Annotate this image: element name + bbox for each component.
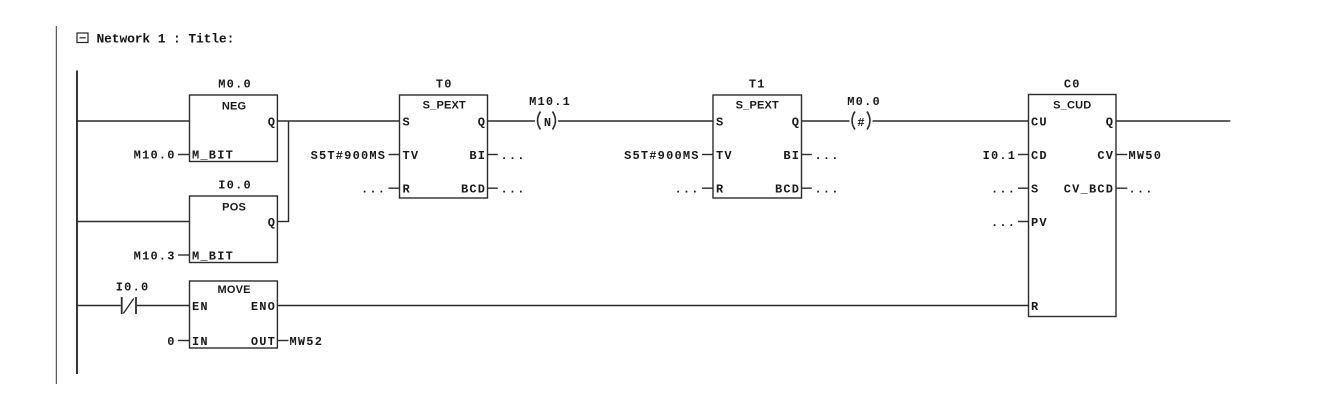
svg-text:S: S [403, 116, 411, 130]
svg-text:S5T#900MS: S5T#900MS [311, 149, 387, 163]
svg-text:0: 0 [167, 335, 175, 349]
wire C0 CV output stub [1116, 154, 1127, 156]
svg-text:Q: Q [478, 116, 486, 130]
svg-text:MW52: MW52 [290, 335, 324, 349]
svg-text:N: N [544, 116, 552, 130]
wire C0 CV_BCD output stub [1116, 187, 1127, 189]
svg-text:R: R [716, 183, 724, 197]
wire T0 BI output stub [488, 154, 498, 156]
svg-text:EN: EN [192, 300, 209, 314]
wire ... to S [1018, 187, 1029, 189]
svg-text:BCD: BCD [461, 183, 486, 197]
svg-text:Q: Q [268, 216, 276, 230]
svg-text:MW50: MW50 [1129, 149, 1163, 163]
wire M10.3 to M_BIT [178, 254, 190, 256]
wire S5T#900MS to TV [389, 154, 400, 156]
svg-text:I0.0: I0.0 [218, 179, 252, 193]
svg-text:S: S [716, 116, 724, 130]
counter block C0 S_CUD [1029, 95, 1117, 317]
svg-text:...: ... [361, 183, 386, 197]
svg-text:CV: CV [1097, 149, 1114, 163]
wire coil # to C0 CU [873, 120, 1029, 122]
wire POS Q to branch [277, 221, 289, 223]
wire T0 BCD output stub [488, 187, 498, 189]
function block POS [190, 196, 278, 264]
svg-text:POS: POS [222, 202, 246, 214]
svg-text:CD: CD [1031, 149, 1048, 163]
svg-text:R: R [1031, 300, 1039, 314]
svg-text:I0.0: I0.0 [116, 281, 150, 295]
svg-text:TV: TV [403, 149, 420, 163]
timer block T1 S_PEXT [713, 95, 802, 198]
svg-text:...: ... [501, 183, 526, 197]
svg-text:Q: Q [1106, 116, 1114, 130]
svg-text:TV: TV [716, 149, 733, 163]
wire rung 2: rail to POS input [76, 221, 190, 223]
wire T1 BI output stub [802, 154, 812, 156]
wire S5T#900MS to TV [702, 154, 713, 156]
svg-text:...: ... [815, 149, 840, 163]
wire ... to PV [1018, 221, 1029, 223]
svg-text:T0: T0 [436, 78, 453, 92]
svg-text:S: S [1031, 183, 1039, 197]
svg-text:...: ... [1129, 183, 1154, 197]
svg-text:...: ... [991, 216, 1016, 230]
function block MOVE [190, 281, 278, 349]
contact NC I0.0 [122, 297, 136, 314]
svg-text:CU: CU [1031, 116, 1048, 130]
wire rung 3: rail to contact [76, 305, 121, 307]
wire rung 1: rail to NEG input [76, 120, 190, 122]
svg-text:M10.3: M10.3 [134, 250, 176, 264]
left power rail [76, 71, 78, 375]
wire C0 Q output [1116, 120, 1230, 122]
wire T1 BCD output stub [802, 187, 812, 189]
svg-text:#: # [857, 116, 865, 130]
svg-text:M10.0: M10.0 [134, 149, 176, 163]
network separator line [55, 26, 57, 384]
svg-text:S_PEXT: S_PEXT [736, 100, 779, 112]
svg-text:Q: Q [792, 116, 800, 130]
svg-text:C0: C0 [1064, 78, 1081, 92]
svg-text:CV_BCD: CV_BCD [1064, 183, 1114, 197]
function block NEG [190, 95, 278, 163]
svg-text:OUT: OUT [251, 335, 276, 349]
svg-text:S_CUD: S_CUD [1053, 100, 1091, 112]
svg-text:M0.0: M0.0 [218, 78, 252, 92]
wire T0 Q to coil N [488, 120, 536, 122]
coil N (negative edge) [538, 112, 556, 130]
svg-text:Network 1 : Title:: Network 1 : Title: [97, 32, 235, 47]
wire ... to R [389, 187, 400, 189]
wire T1 Q to coil # [802, 120, 850, 122]
svg-text:...: ... [501, 149, 526, 163]
svg-text:...: ... [815, 183, 840, 197]
svg-text:T1: T1 [749, 78, 766, 92]
svg-text:M_BIT: M_BIT [192, 149, 234, 163]
svg-text:IN: IN [192, 335, 209, 349]
svg-text:...: ... [991, 183, 1016, 197]
svg-text:PV: PV [1031, 216, 1048, 230]
svg-text:Q: Q [268, 116, 276, 130]
wire 0 to IN [178, 340, 190, 342]
timer block T0 S_PEXT [400, 95, 488, 198]
coil # (connector) [852, 112, 870, 130]
svg-text:M0.0: M0.0 [847, 95, 881, 109]
network collapse icon [77, 33, 88, 43]
wire branch vertical connector [288, 121, 290, 222]
svg-text:S_PEXT: S_PEXT [423, 100, 466, 112]
wire MOVE OUT stub [277, 340, 288, 342]
wire NEG Q to T0 S [277, 120, 399, 122]
svg-text:BI: BI [783, 149, 800, 163]
wire coil N to T1 S [558, 120, 713, 122]
svg-text:BI: BI [469, 149, 486, 163]
svg-text:R: R [403, 183, 411, 197]
svg-text:I0.1: I0.1 [983, 149, 1017, 163]
svg-text:S5T#900MS: S5T#900MS [624, 149, 700, 163]
wire ... to R [702, 187, 713, 189]
svg-text:NEG: NEG [222, 101, 246, 113]
svg-text:MOVE: MOVE [217, 284, 250, 296]
wire I0.1 to CD [1018, 154, 1029, 156]
svg-text:BCD: BCD [775, 183, 800, 197]
svg-text:ENO: ENO [251, 300, 276, 314]
svg-text:M10.1: M10.1 [529, 95, 571, 109]
svg-text:M_BIT: M_BIT [192, 250, 234, 264]
wire contact to MOVE EN [137, 305, 190, 307]
wire MOVE ENO to C0 R [277, 305, 1028, 307]
svg-text:...: ... [674, 183, 699, 197]
wire M10.0 to M_BIT [178, 154, 190, 156]
